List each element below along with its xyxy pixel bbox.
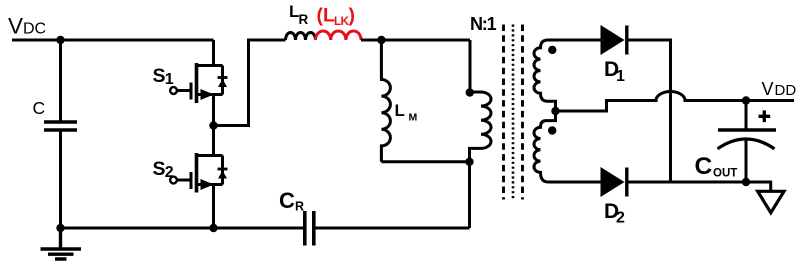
node VDD junction — [742, 96, 750, 104]
node midpoint junction — [209, 121, 217, 129]
transistor S1 source lead with arrow — [197, 93, 223, 96]
svg-text:(L: (L — [317, 5, 335, 27]
transformer core center dotted line — [512, 25, 515, 200]
svg-text:V: V — [762, 79, 774, 99]
svg-text:): ) — [349, 5, 356, 27]
transistor S1 — [170, 40, 227, 126]
label C_OUT — [695, 153, 738, 180]
transformer secondary top winding — [534, 40, 601, 111]
wire bottom rail left — [61, 227, 304, 230]
node bottom junction S2 — [209, 224, 217, 232]
label L_R — [289, 2, 309, 27]
transistor S1 channel bar — [195, 63, 199, 103]
label D2 — [604, 200, 625, 227]
capacitor C_R — [305, 211, 314, 246]
wire cap C top lead — [59, 40, 62, 121]
svg-text:R: R — [295, 200, 304, 214]
transistor S2 channel bar — [195, 153, 199, 193]
svg-text:C: C — [33, 98, 46, 118]
capacitor C — [44, 122, 77, 130]
wire S2 drain — [197, 126, 223, 156]
label (L_LK) red — [317, 5, 356, 29]
diode D1 — [601, 25, 625, 55]
node VDD label — [762, 79, 797, 99]
wire S1 drain — [197, 40, 223, 66]
svg-text:OUT: OUT — [713, 168, 737, 180]
transformer primary winding — [470, 40, 492, 228]
wire midpoint to resonant tank — [214, 40, 286, 126]
transistor S2 — [170, 126, 227, 229]
transistor S2 body diode — [221, 156, 224, 185]
transformer core right dashed bar — [521, 25, 524, 200]
wire cap C bottom lead — [59, 132, 62, 229]
wire S1 source — [212, 95, 215, 126]
node secondary bottom polarity dot — [548, 126, 556, 134]
node junction top-left — [56, 36, 64, 44]
label S1 — [153, 65, 174, 88]
label D1 — [604, 58, 625, 85]
transformer secondary bottom winding — [534, 111, 601, 182]
svg-text:C: C — [279, 188, 295, 213]
wire VDD to C_OUT — [745, 101, 748, 131]
svg-text:C: C — [695, 153, 713, 180]
label C — [33, 98, 46, 118]
label N:1 — [470, 14, 497, 34]
svg-text:DC: DC — [23, 21, 46, 38]
wire center tap to VDD with hop — [556, 92, 795, 112]
node junction L_M top — [377, 36, 385, 44]
transistor S2 gate bar — [190, 172, 193, 189]
node primary polarity dot — [466, 88, 474, 96]
diode D2 — [601, 167, 625, 197]
transistor S2 source lead with arrow — [197, 183, 223, 186]
wire D1 cathode down to bottom rail — [628, 40, 671, 182]
capacitor C_OUT — [718, 128, 776, 131]
wire C_OUT bottom — [745, 139, 748, 182]
node secondary top polarity dot — [548, 46, 556, 54]
svg-text:N:1: N:1 — [470, 14, 497, 34]
label L_M — [395, 101, 418, 124]
label S2 — [153, 158, 174, 181]
ground (right, triangle style) — [746, 182, 771, 191]
transistor S1 gate terminal — [170, 87, 177, 94]
svg-text:L: L — [395, 101, 405, 120]
inductor L_LK (red section) — [316, 31, 362, 40]
transistor S2 gate terminal — [170, 177, 177, 184]
transformer core left dashed bar — [502, 25, 505, 200]
transistor S1 gate bar — [190, 83, 193, 100]
svg-text:M: M — [409, 112, 418, 124]
wire D2 cathode to output junction — [628, 181, 746, 184]
inductor L_R (black section) — [286, 33, 316, 41]
transistor S1 body diode — [221, 66, 224, 95]
svg-text:1: 1 — [165, 71, 174, 88]
svg-text:R: R — [299, 12, 309, 27]
label C_R — [279, 188, 304, 214]
svg-text:LK: LK — [334, 16, 350, 28]
svg-text:DD: DD — [775, 82, 797, 99]
svg-text:V: V — [8, 14, 23, 39]
wire L_M bottom — [381, 160, 469, 163]
svg-text:2: 2 — [165, 164, 174, 181]
node VDC label — [8, 14, 46, 39]
label plus polarity — [759, 110, 771, 122]
node center tap junction — [551, 107, 559, 115]
wire bottom rail right — [316, 227, 470, 230]
wire S2 source — [212, 185, 215, 229]
svg-text:1: 1 — [616, 68, 625, 85]
ground (left, earth style) — [41, 228, 82, 259]
node junction bottom-left — [56, 224, 64, 232]
svg-text:S: S — [153, 158, 166, 180]
svg-text:2: 2 — [616, 210, 625, 227]
wire L_R to primary — [361, 39, 470, 42]
inductor L_M — [381, 40, 390, 162]
svg-text:S: S — [153, 65, 166, 87]
node junction L_M bottom — [465, 158, 473, 166]
node bottom-right junction — [742, 178, 750, 186]
wire top rail — [12, 39, 214, 42]
